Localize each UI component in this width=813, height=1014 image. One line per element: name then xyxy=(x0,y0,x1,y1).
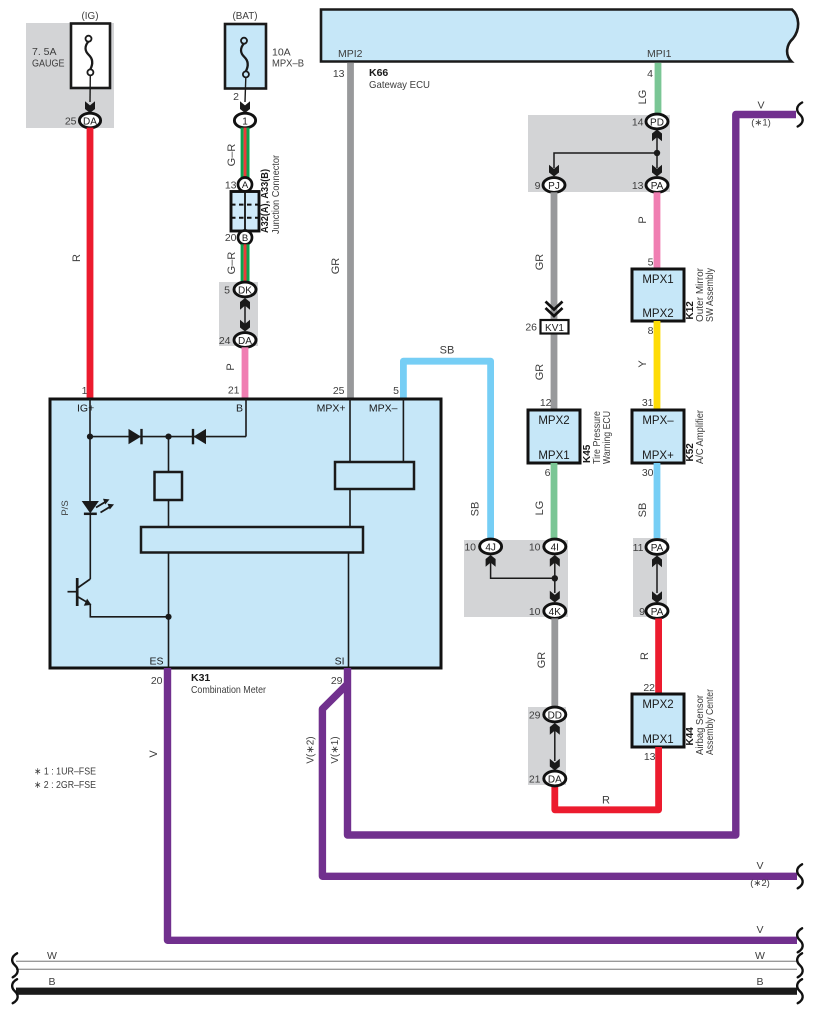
wire from PD arrow to junction xyxy=(656,133,658,153)
svg-text:4J: 4J xyxy=(485,542,496,553)
arrow down to DA xyxy=(550,759,560,771)
svg-text:MPX+: MPX+ xyxy=(317,403,346,415)
wire LG from K45 to 4I xyxy=(551,463,558,540)
torn end B right xyxy=(797,979,803,1003)
svg-text:R: R xyxy=(71,254,83,262)
torn end W right xyxy=(797,953,803,977)
svg-text:SB: SB xyxy=(637,503,649,518)
wire emitter to node xyxy=(90,604,168,617)
svg-text:31: 31 xyxy=(642,397,654,409)
wire junction to PJ xyxy=(554,153,657,168)
svg-text:IG+: IG+ xyxy=(77,403,94,415)
wire V(*2) branch to right edge xyxy=(322,684,797,876)
arrow up to DD xyxy=(550,723,560,735)
svg-text:Assembly Center: Assembly Center xyxy=(705,688,716,755)
oval connector PJ xyxy=(543,178,565,193)
svg-text:9: 9 xyxy=(535,180,541,192)
svg-text:2: 2 xyxy=(233,91,239,103)
oval connector 1 xyxy=(234,113,255,128)
svg-text:14: 14 xyxy=(632,117,644,129)
wire node to ES pin xyxy=(168,617,170,668)
svg-text:MPX–B: MPX–B xyxy=(272,58,304,70)
svg-text:LG: LG xyxy=(534,501,546,516)
svg-text:(∗1): (∗1) xyxy=(751,118,771,129)
svg-text:DA: DA xyxy=(548,774,562,785)
svg-text:7. 5A: 7. 5A xyxy=(32,46,57,58)
svg-text:MPX2: MPX2 xyxy=(642,308,673,320)
svg-text:10: 10 xyxy=(529,542,541,554)
wire SB from K52 to PA xyxy=(654,463,661,540)
svg-text:A32(A), A33(B): A32(A), A33(B) xyxy=(260,169,271,233)
svg-text:13: 13 xyxy=(644,751,656,763)
svg-text:R: R xyxy=(602,795,610,807)
torn end V xyxy=(797,928,803,952)
svg-text:29: 29 xyxy=(331,675,343,687)
svg-text:5: 5 xyxy=(648,257,654,269)
svg-text:DA: DA xyxy=(83,116,97,127)
wire to resistor xyxy=(168,437,170,472)
diode D1 xyxy=(129,429,142,444)
connector box PD/PJ/PA xyxy=(528,115,670,192)
amplifier K52 A/C Amplifier xyxy=(632,410,684,463)
wire MPX- internal xyxy=(402,399,404,462)
wire SB from K31 MPX- to 4J xyxy=(403,361,490,539)
wire R from PA to K44 pin 22 xyxy=(655,618,662,694)
combination meter K31 box xyxy=(50,399,441,668)
arrow up to PD xyxy=(652,130,662,142)
oval connector PA upper xyxy=(646,540,668,555)
wire B internal xyxy=(245,399,247,437)
svg-text:V(∗2): V(∗2) xyxy=(306,736,317,763)
svg-text:4K: 4K xyxy=(549,607,562,618)
svg-text:10: 10 xyxy=(464,542,476,554)
wire diode row xyxy=(90,436,246,438)
svg-text:∗ 2 : 2GR–FSE: ∗ 2 : 2GR–FSE xyxy=(34,780,96,791)
note engine codes xyxy=(34,767,96,792)
wire LED to transistor xyxy=(89,514,91,579)
junction connector A32(A), A33(B) xyxy=(231,192,259,232)
wire GR from PJ to K45 pin 12 xyxy=(551,192,558,410)
svg-text:MPI2: MPI2 xyxy=(338,48,363,60)
svg-text:21: 21 xyxy=(529,774,541,786)
oval connector PA xyxy=(646,178,668,193)
node ES junction xyxy=(165,614,171,620)
svg-text:P: P xyxy=(225,363,237,370)
wire B rail xyxy=(16,988,797,995)
resistor box xyxy=(155,472,183,500)
diode D2 xyxy=(193,429,206,444)
svg-text:DK: DK xyxy=(238,285,252,296)
svg-text:SW Assembly: SW Assembly xyxy=(705,268,716,322)
arrow down to 4K xyxy=(550,591,560,603)
wires inside 4-box xyxy=(491,559,555,593)
oval connector PA lower xyxy=(646,604,668,619)
svg-text:21: 21 xyxy=(228,385,240,397)
svg-text:GAUGE: GAUGE xyxy=(32,58,65,70)
svg-text:6: 6 xyxy=(545,467,551,479)
svg-text:MPX2: MPX2 xyxy=(642,699,673,711)
svg-text:A: A xyxy=(242,180,249,191)
svg-text:K31: K31 xyxy=(191,672,210,684)
svg-text:W: W xyxy=(755,950,765,962)
torn end W left xyxy=(12,953,18,977)
connector KV1 xyxy=(541,320,569,334)
svg-text:∗ 1 : 1UR–FSE: ∗ 1 : 1UR–FSE xyxy=(34,767,96,778)
svg-text:SB: SB xyxy=(470,502,482,517)
oval connector 4K xyxy=(544,604,566,619)
svg-text:V: V xyxy=(148,750,160,758)
wire P from PA to K12 pin 5 xyxy=(654,192,661,269)
svg-text:12: 12 xyxy=(540,397,552,409)
svg-text:22: 22 xyxy=(643,682,655,694)
arrow up to 4I xyxy=(550,555,560,567)
svg-text:PA: PA xyxy=(651,607,664,618)
svg-text:13: 13 xyxy=(333,68,345,80)
svg-text:GR: GR xyxy=(534,254,546,271)
connector arrow into DA xyxy=(85,101,95,113)
wire IC to SI pin xyxy=(348,553,350,669)
arrow up to 4J xyxy=(486,555,496,567)
svg-text:13: 13 xyxy=(225,180,237,192)
connector box 4J/4I/4K xyxy=(464,540,568,617)
svg-text:MPX–: MPX– xyxy=(642,415,674,427)
wire R from DA to K31 pin 1 xyxy=(87,128,94,399)
svg-text:B: B xyxy=(236,403,243,415)
wire resistor to IC xyxy=(168,500,170,527)
svg-text:Combination Meter: Combination Meter xyxy=(191,684,266,696)
junction dot xyxy=(552,575,558,581)
svg-text:MPX1: MPX1 xyxy=(642,734,673,746)
LED P/S xyxy=(82,499,114,514)
oval connector DA xyxy=(234,333,256,348)
svg-text:1: 1 xyxy=(82,385,88,397)
svg-text:SB: SB xyxy=(440,345,455,357)
torn end V(*2) xyxy=(797,864,803,888)
connector box PA/PA xyxy=(633,538,667,617)
wire between arrows xyxy=(244,303,246,327)
svg-text:DA: DA xyxy=(238,336,252,347)
arrow down to PJ xyxy=(549,165,559,177)
oval connector DK xyxy=(234,282,256,297)
svg-text:B: B xyxy=(242,233,248,244)
connector pair DK/DA gray box xyxy=(219,282,258,346)
svg-text:GR: GR xyxy=(330,258,342,275)
svg-text:9: 9 xyxy=(639,606,645,618)
circle terminal A xyxy=(238,178,252,192)
svg-text:(IG): (IG) xyxy=(82,10,99,22)
wire block to IC xyxy=(349,489,351,527)
svg-text:10: 10 xyxy=(529,606,541,618)
wire V(*1) from SI to top right xyxy=(348,115,797,836)
svg-text:Gateway ECU: Gateway ECU xyxy=(369,79,430,91)
svg-text:5: 5 xyxy=(224,285,230,297)
junction dot xyxy=(654,150,660,156)
torn end B left xyxy=(12,979,18,1003)
svg-text:5: 5 xyxy=(393,385,399,397)
wire junction to PA xyxy=(656,153,658,168)
svg-text:30: 30 xyxy=(642,467,654,479)
oval connector DD xyxy=(544,707,566,722)
svg-text:11: 11 xyxy=(633,542,644,554)
svg-text:A/C Amplifier: A/C Amplifier xyxy=(695,409,706,464)
wire IG+ internal xyxy=(89,399,91,437)
wire between arrows xyxy=(554,728,556,761)
svg-text:25: 25 xyxy=(65,116,77,128)
svg-text:Warning ECU: Warning ECU xyxy=(602,411,613,464)
svg-text:29: 29 xyxy=(529,710,541,722)
svg-text:Y: Y xyxy=(637,360,649,368)
svg-text:GR: GR xyxy=(536,652,548,669)
oval connector DA lower xyxy=(544,771,566,786)
crossing chevron on GR wire xyxy=(546,302,563,317)
svg-text:G–R: G–R xyxy=(226,252,238,275)
node mid junction xyxy=(165,434,171,440)
wire V from ES to right edge xyxy=(168,668,798,940)
svg-text:PA: PA xyxy=(651,543,664,554)
svg-text:25: 25 xyxy=(333,385,345,397)
wire between arrows xyxy=(656,560,658,593)
fuse 7.5A GAUGE (IG) panel xyxy=(26,10,114,128)
svg-text:PD: PD xyxy=(650,117,664,128)
oval connector 4I xyxy=(544,539,566,554)
svg-text:B: B xyxy=(48,976,55,988)
switch K12 Outer Mirror SW Assembly xyxy=(632,269,684,321)
connector pair DD/DA gray box xyxy=(528,707,566,785)
IC block long rectangle xyxy=(141,527,363,553)
gateway ECU K66 bar xyxy=(321,10,798,62)
svg-text:MPX1: MPX1 xyxy=(538,450,569,462)
arrow down to PA xyxy=(652,591,662,603)
svg-text:8: 8 xyxy=(648,325,654,337)
wire G-R from oval 1 to junction A xyxy=(241,128,250,178)
arrow down to DA xyxy=(240,320,250,332)
svg-text:V(∗1): V(∗1) xyxy=(330,736,341,763)
wire W rail xyxy=(16,961,797,969)
fuse 10A MPX-B (BAT) xyxy=(225,10,304,102)
arrow up to DK xyxy=(240,298,250,310)
svg-text:PA: PA xyxy=(651,181,664,192)
transceiver block rectangle xyxy=(335,462,414,489)
wire IC to ES node xyxy=(168,553,170,617)
svg-text:V: V xyxy=(756,924,763,936)
svg-text:G–R: G–R xyxy=(226,144,238,167)
svg-text:LG: LG xyxy=(637,90,649,105)
svg-text:KV1: KV1 xyxy=(545,323,564,334)
svg-text:4: 4 xyxy=(647,68,653,80)
wire G-R from B to DK xyxy=(241,244,250,282)
svg-text:SI: SI xyxy=(335,656,345,668)
svg-text:24: 24 xyxy=(219,335,231,347)
oval connector PD xyxy=(646,114,668,129)
svg-text:MPX+: MPX+ xyxy=(642,450,674,462)
svg-text:GR: GR xyxy=(534,364,546,381)
wire GR from 4K to DD xyxy=(551,618,558,707)
sensor K44 Airbag Sensor Assembly Center xyxy=(632,694,684,747)
circle terminal B xyxy=(238,231,252,245)
node IG+ junction xyxy=(87,434,93,440)
svg-text:ES: ES xyxy=(149,656,163,668)
svg-text:P/S: P/S xyxy=(60,500,71,515)
ECU K45 Tire Pressure Warning ECU xyxy=(528,410,580,463)
svg-text:20: 20 xyxy=(225,232,237,244)
wire R from K44 pin 13 to DA xyxy=(555,747,659,810)
wire Y from K12 to K52 pin 31 xyxy=(654,321,661,410)
svg-text:20: 20 xyxy=(151,675,163,687)
svg-text:1: 1 xyxy=(242,116,248,127)
oval connector 4J xyxy=(480,539,502,554)
svg-text:V: V xyxy=(757,100,764,112)
svg-text:P: P xyxy=(637,216,649,223)
svg-text:(BAT): (BAT) xyxy=(233,10,258,22)
svg-text:V: V xyxy=(756,860,763,872)
svg-text:B: B xyxy=(756,976,763,988)
svg-text:(∗2): (∗2) xyxy=(750,878,770,889)
wire GR from MPI2 to K31 pin 25 xyxy=(347,63,354,399)
svg-text:MPX–: MPX– xyxy=(369,403,398,415)
svg-text:MPX2: MPX2 xyxy=(538,415,569,427)
svg-text:DD: DD xyxy=(548,710,562,721)
wire P from DA to K31 pin 21 xyxy=(242,347,249,399)
svg-text:R: R xyxy=(639,652,651,660)
torn end V(*1) xyxy=(797,103,803,127)
svg-text:MPI1: MPI1 xyxy=(647,48,672,60)
svg-text:W: W xyxy=(47,950,57,962)
arrow down to PA xyxy=(652,165,662,177)
svg-text:K66: K66 xyxy=(369,67,388,79)
svg-text:26: 26 xyxy=(525,322,537,334)
svg-text:MPX1: MPX1 xyxy=(642,274,673,286)
svg-text:PJ: PJ xyxy=(548,181,560,192)
wire LG from MPI1 to PD xyxy=(655,63,662,115)
svg-text:Junction Connector: Junction Connector xyxy=(271,154,282,234)
svg-text:13: 13 xyxy=(632,180,644,192)
wire MPX+ internal xyxy=(349,399,351,462)
transistor Q1 xyxy=(68,578,92,606)
connector arrow into oval 1 xyxy=(240,101,250,113)
oval connector DA xyxy=(79,113,100,128)
wire to LED xyxy=(89,437,91,501)
arrow up to PA xyxy=(652,556,662,568)
svg-text:4I: 4I xyxy=(551,542,559,553)
